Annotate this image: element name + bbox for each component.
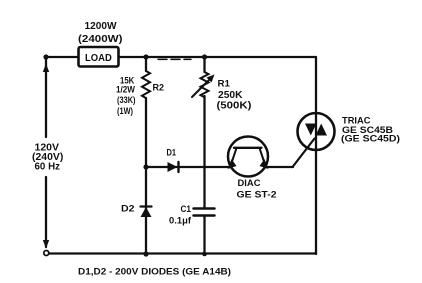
svg-text:LOAD: LOAD <box>85 52 112 64</box>
svg-text:(1W): (1W) <box>117 106 133 116</box>
svg-text:R2: R2 <box>153 82 165 93</box>
svg-text:0.1μf: 0.1μf <box>169 216 192 227</box>
svg-text:(500K): (500K) <box>217 100 252 111</box>
svg-text:1/2W: 1/2W <box>116 85 135 95</box>
svg-text:(GE SC45D): (GE SC45D) <box>341 134 400 145</box>
svg-text:DIAC: DIAC <box>238 178 261 189</box>
svg-text:D1: D1 <box>167 148 177 158</box>
svg-text:C1: C1 <box>181 204 192 215</box>
svg-text:(33K): (33K) <box>117 95 136 105</box>
svg-text:D2: D2 <box>121 204 135 215</box>
svg-text:(2400W): (2400W) <box>78 34 123 45</box>
svg-text:250K: 250K <box>218 90 243 101</box>
svg-text:R1: R1 <box>218 78 231 89</box>
svg-text:GE ST-2: GE ST-2 <box>237 190 277 201</box>
svg-text:60 Hz: 60 Hz <box>35 162 61 173</box>
svg-text:D1,D2 - 200V DIODES (GE A14B): D1,D2 - 200V DIODES (GE A14B) <box>78 267 231 278</box>
svg-text:1200W: 1200W <box>85 21 118 32</box>
